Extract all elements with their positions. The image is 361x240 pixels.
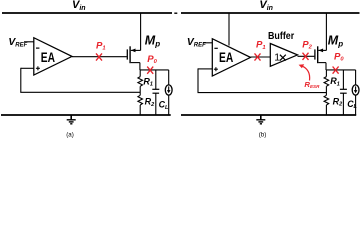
svg-text:EA: EA xyxy=(41,50,55,65)
wire R1 to feedback tap (a) xyxy=(139,86,141,95)
wire node to R1 (b) xyxy=(325,70,327,77)
svg-text:(a): (a) xyxy=(66,131,74,138)
wire load source to ground rail (b) xyxy=(355,95,357,115)
pole P0 X mark (b) xyxy=(333,67,339,74)
output node wire (a) xyxy=(140,69,169,71)
svg-text:P0: P0 xyxy=(334,51,344,62)
buffer output wire to gate (b) xyxy=(298,55,315,57)
svg-text:R1: R1 xyxy=(330,76,340,87)
output node wire (b) xyxy=(326,69,356,71)
wire EA plus input (a) xyxy=(21,67,34,69)
svg-text:CL: CL xyxy=(159,100,169,111)
capacitor CL (b) xyxy=(340,89,347,93)
wire VREF to EA inverting input (a) xyxy=(24,41,34,43)
pole P1 X mark (b) xyxy=(255,53,261,60)
plus sign (a) xyxy=(36,66,40,70)
feedback wire left vertical (b) xyxy=(197,68,199,92)
resistor R2 (b) xyxy=(324,95,329,105)
EA supply line from Vin rail (b) xyxy=(228,13,230,46)
svg-text:VREF: VREF xyxy=(187,37,206,49)
svg-text:RESR: RESR xyxy=(304,80,320,89)
wire node to R1 (a) xyxy=(139,70,141,77)
Mp drain line to output node (b) xyxy=(325,63,327,70)
svg-text:1: 1 xyxy=(274,52,280,64)
transistor Mp (a) xyxy=(127,46,140,63)
wire R2 to ground rail (b) xyxy=(325,105,327,115)
wire CL to ground rail (a) xyxy=(155,93,157,115)
wire VREF to EA inverting input (b) xyxy=(204,42,213,44)
resistor R2 (a) xyxy=(138,95,143,105)
load current source (b) xyxy=(352,85,359,95)
feedback wire bottom horizontal (b) xyxy=(198,92,327,94)
svg-text:VREF: VREF xyxy=(8,37,27,49)
op-amp EA (a) xyxy=(34,38,72,75)
svg-text:P1: P1 xyxy=(96,40,106,51)
wire node to load source (b) xyxy=(355,70,357,85)
pole P1 X mark (a) xyxy=(96,53,102,60)
svg-text:R1: R1 xyxy=(143,77,153,88)
svg-text:(b): (b) xyxy=(259,131,267,138)
wire node to CL (b) xyxy=(342,70,344,89)
resistor R1 (b) xyxy=(324,77,329,87)
wire R2 to ground rail (a) xyxy=(139,105,141,115)
ground rail (b) xyxy=(181,114,356,116)
wire node to load source (a) xyxy=(168,70,170,85)
wire load source to ground rail (a) xyxy=(168,95,170,115)
Vin supply rail (b) xyxy=(181,12,360,14)
load current source (a) xyxy=(165,85,172,95)
feedback wire bottom horizontal (a) xyxy=(20,91,140,93)
svg-text:Mp: Mp xyxy=(145,33,160,48)
EA output wire to gate (a) xyxy=(72,56,127,58)
svg-text:R2: R2 xyxy=(145,97,155,108)
Mp drain line to output node (a) xyxy=(139,63,141,70)
wire EA plus input (b) xyxy=(198,68,212,70)
EA output wire to buffer (b) xyxy=(251,56,271,58)
pole P2 X mark (b) xyxy=(303,53,309,60)
RESR annotation arrow (b) xyxy=(299,64,310,80)
feedback wire left vertical (a) xyxy=(20,68,22,93)
resistor R1 (a) xyxy=(138,77,143,87)
svg-text:Vin: Vin xyxy=(72,0,86,12)
pole P0 X mark (a) xyxy=(147,67,153,74)
svg-text:P1: P1 xyxy=(256,40,266,51)
buffer U1 (b) xyxy=(270,44,297,67)
svg-text:EA: EA xyxy=(219,50,233,65)
svg-text:Buffer: Buffer xyxy=(268,31,294,42)
minus sign (a) xyxy=(36,47,39,49)
minus sign (b) xyxy=(214,47,217,49)
separator dash between subfigures xyxy=(174,12,177,14)
wire node to CL (a) xyxy=(155,70,157,89)
svg-text:P2: P2 xyxy=(302,39,312,50)
Mp source line from Vin rail (a) xyxy=(140,13,142,50)
op-amp EA (b) xyxy=(212,39,250,76)
capacitor CL (a) xyxy=(152,89,159,93)
ground symbol (a) xyxy=(67,115,76,124)
ground rail (a) xyxy=(1,114,171,116)
svg-text:R2: R2 xyxy=(333,96,343,107)
wire CL to ground rail (b) xyxy=(342,93,344,115)
wire R1 to feedback tap (b) xyxy=(325,86,327,95)
transistor Mp (b) xyxy=(315,46,327,63)
svg-text:Vin: Vin xyxy=(259,0,273,12)
ground symbol (b) xyxy=(256,115,265,124)
svg-text:P0: P0 xyxy=(147,54,157,65)
svg-text:Mp: Mp xyxy=(328,33,343,48)
Vin supply rail (a) xyxy=(2,12,172,14)
Mp source line from Vin rail (b) xyxy=(325,13,327,50)
plus sign (b) xyxy=(214,67,218,71)
